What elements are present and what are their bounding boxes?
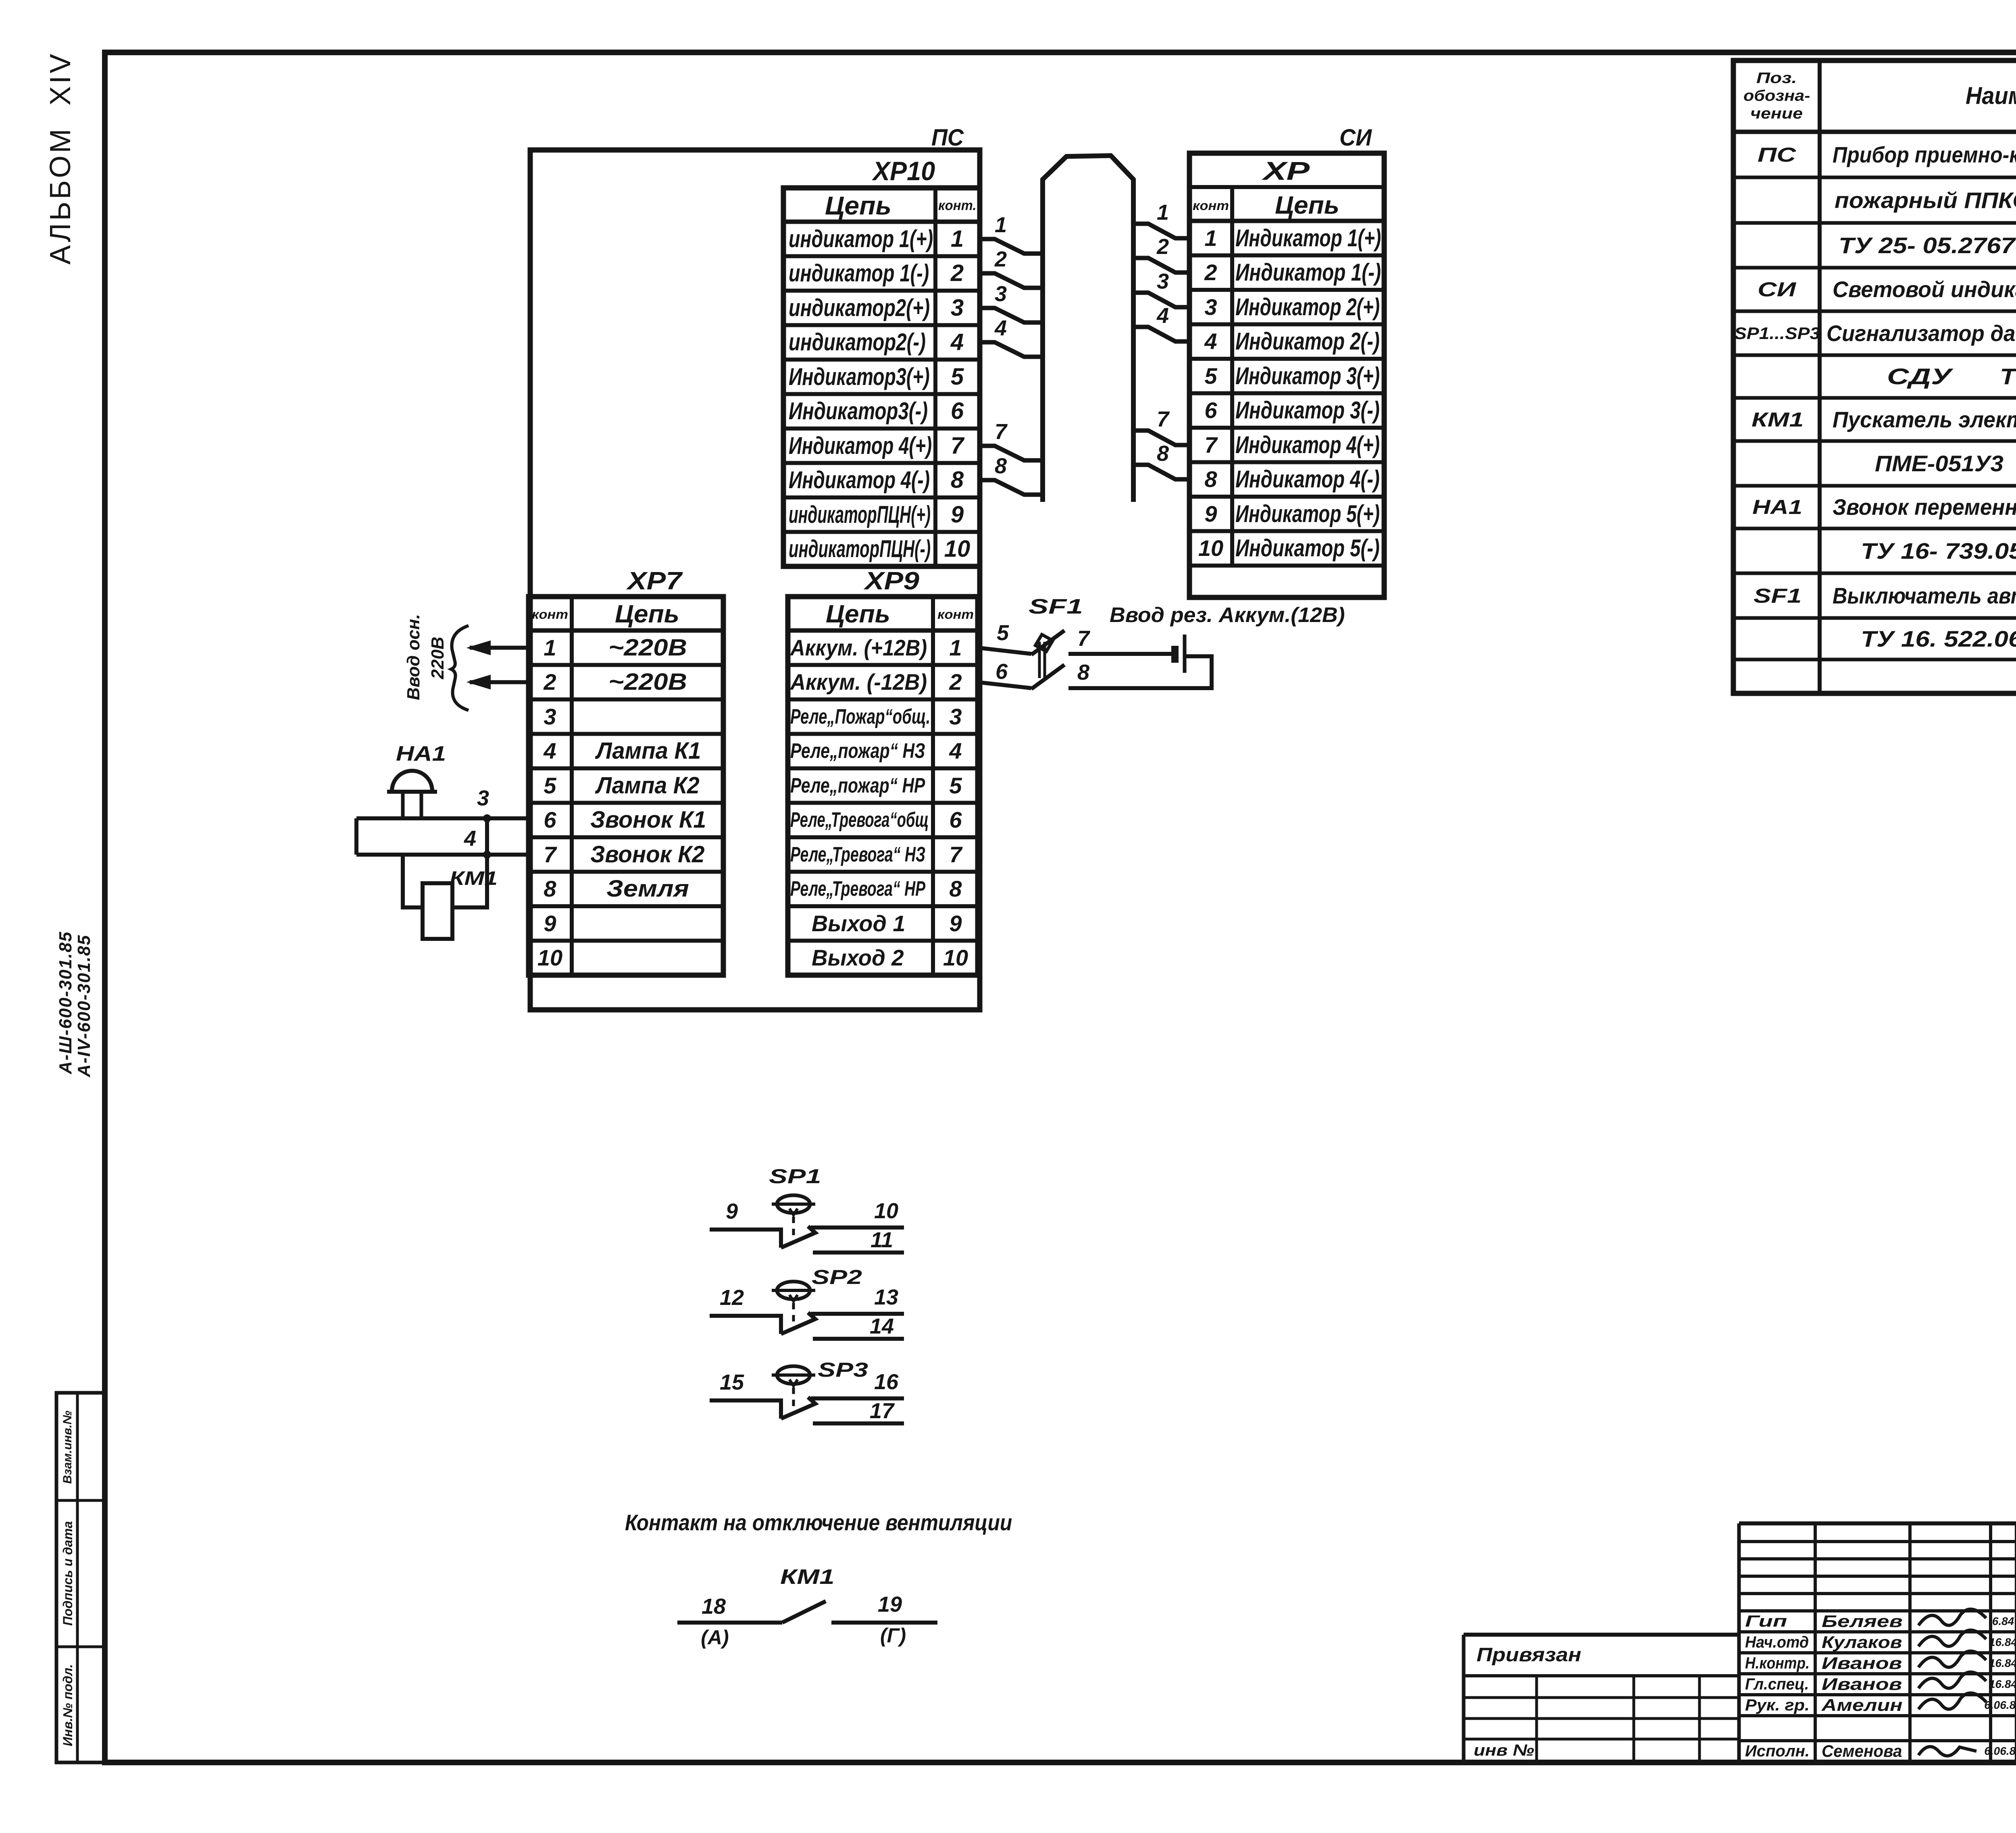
wire XP10 pin 3 to trunk	[980, 308, 1043, 322]
terminal numbers SP3	[720, 1371, 744, 1393]
parts table rows	[1758, 145, 1796, 165]
title block texts	[1477, 1646, 1581, 1665]
pressure switch SP3 actuator dashed link	[792, 1388, 795, 1413]
wire XP10 pin 1 to trunk	[980, 239, 1043, 254]
wire number 5	[997, 622, 1009, 644]
pressure switch SP2 actuator dashed link	[792, 1303, 795, 1328]
breaker SF1 pole 2 blade	[1031, 665, 1064, 689]
wire number 3 left	[995, 283, 1007, 305]
wire trunk to SI pin 3	[1133, 293, 1189, 307]
album label	[46, 52, 75, 265]
wire number 4	[464, 828, 476, 849]
brace for 220V input	[451, 626, 469, 710]
device SI box with connector XP table	[1189, 153, 1384, 597]
left margin vertical labels	[62, 1411, 74, 1483]
contact KM1 blade	[782, 1601, 826, 1623]
pressure switch SP3 NO wire	[811, 1396, 904, 1400]
wire 4 bell to XP7 pin 7	[356, 853, 529, 857]
mains input arrow pin 1	[468, 641, 529, 655]
pressure switch SP1 blade	[781, 1226, 815, 1248]
pressure switch SP2 diaphragm	[772, 1282, 815, 1301]
wire number 1 left	[995, 214, 1007, 236]
label SI	[1339, 126, 1372, 150]
label XP7	[627, 569, 682, 594]
battery GB short plate	[1171, 646, 1179, 663]
wire left side down	[354, 818, 358, 855]
battery GB long plate	[1183, 635, 1187, 673]
terminal numbers SP2	[720, 1287, 744, 1309]
label Vvod osn 220V	[405, 614, 423, 700]
contact KM1 left wire	[677, 1621, 782, 1625]
wire XP10 pin 7 to trunk	[980, 446, 1043, 460]
wire number 8 left	[995, 455, 1007, 477]
wire number 7 right	[1157, 408, 1169, 430]
wire trunk to SI pin 1	[1133, 224, 1189, 238]
XP10 circuit names and pin numbers	[789, 227, 933, 251]
XP10 header	[825, 193, 891, 218]
wire number 8	[1077, 662, 1089, 683]
pressure switch SP3 left wire	[710, 1400, 781, 1419]
wire number 4 right	[1157, 305, 1169, 327]
label XP of SI	[1263, 158, 1310, 184]
wire 6 XP9 pin2 to SF1	[978, 682, 1031, 688]
wire XP10 pin 2 to trunk	[980, 273, 1043, 288]
wire number 8 right	[1157, 443, 1169, 464]
contactor coil KM1	[423, 883, 452, 939]
pressure switch SP2 left wire	[710, 1316, 781, 1334]
label KM1 contact	[780, 1567, 835, 1587]
label XP10	[873, 158, 935, 184]
wire XP10 pin 8 to trunk	[980, 480, 1043, 495]
left attachment box grid	[1464, 1635, 1739, 1762]
wire number 7 left	[995, 421, 1007, 443]
note contact for ventilation shutoff	[625, 1511, 1012, 1534]
wire trunk to SI pin 4	[1133, 327, 1189, 341]
wire number 1 right	[1157, 202, 1169, 223]
signature table texts	[1745, 1613, 1787, 1629]
wire 8 to battery	[1068, 656, 1212, 688]
left margin stamp boxes	[56, 1393, 105, 1762]
wire number 2 right	[1157, 236, 1169, 258]
wire number 2 left	[995, 248, 1007, 270]
pressure switch SP1 NO wire	[811, 1225, 904, 1230]
breaker SF1 mechanical link	[1039, 642, 1045, 678]
bell HA1 dome	[387, 771, 437, 792]
wire XP10 pin 4 to trunk	[980, 342, 1043, 357]
wire number 7	[1077, 628, 1089, 649]
label Vvod rez Akkum	[1110, 605, 1345, 626]
left document codes	[57, 931, 75, 1074]
label KM1 coil	[450, 869, 498, 888]
XP9 circuit names and pin numbers	[790, 637, 927, 659]
pressure switch SP1 left wire	[710, 1230, 781, 1248]
XP9 header	[826, 602, 890, 627]
wire 5 XP9 pin1 to SF1	[978, 648, 1031, 654]
SI circuit names and pin numbers	[1235, 226, 1381, 250]
SI header	[1193, 199, 1229, 212]
signature table grid	[1739, 1523, 2016, 1762]
pressure switch SP3 diaphragm	[772, 1366, 815, 1386]
label XP9	[865, 569, 919, 594]
connector XP7 table	[529, 597, 723, 975]
mains input arrow pin 2	[468, 675, 529, 689]
terminal 18 and node A	[702, 1596, 726, 1617]
wire coil to node	[452, 818, 491, 907]
label SP1	[769, 1166, 821, 1186]
connector XP10 table	[783, 188, 980, 566]
terminal numbers SP1	[726, 1201, 738, 1222]
title block grid	[1739, 1523, 2016, 1762]
XP7 circuit names and pin numbers	[608, 636, 687, 660]
pressure switch SP2 blade	[781, 1313, 815, 1334]
pressure switch SP1 NC wire	[813, 1250, 904, 1255]
label PS	[931, 126, 964, 150]
parts table headers	[1756, 71, 1797, 86]
pressure switch SP2 NC wire	[813, 1337, 904, 1341]
wire to contactor coil	[403, 855, 423, 907]
pressure switch SP1 diaphragm	[772, 1195, 815, 1215]
label HA1	[396, 743, 446, 764]
wire number 3	[477, 787, 489, 809]
label SP3	[818, 1360, 868, 1380]
parts list table grid	[1733, 60, 2016, 693]
wire number 3 right	[1157, 270, 1169, 292]
wire number 6	[996, 661, 1008, 682]
wire trunk to SI pin 2	[1133, 258, 1189, 273]
signature squiggles	[1918, 1609, 1986, 1756]
label SP2	[812, 1267, 862, 1287]
breaker SF1 pole 1 blade	[1031, 630, 1064, 655]
wire 3 bell to XP7 pin 6	[356, 814, 529, 822]
wire trunk to SI pin 8	[1133, 465, 1189, 479]
connector XP9 table	[788, 597, 978, 975]
wire 7 to battery	[1068, 652, 1172, 656]
breaker SF1 latch square	[1035, 635, 1053, 651]
cable trunk between PS and SI	[1043, 156, 1133, 502]
device PS outline box	[530, 150, 980, 1010]
pressure switch SP2 NO wire	[811, 1312, 904, 1316]
wire trunk to SI pin 7	[1133, 431, 1189, 445]
contact KM1 right wire	[831, 1621, 937, 1625]
wire number 4 left	[995, 317, 1007, 339]
label SF1	[1029, 596, 1083, 617]
pressure switch SP3 NC wire	[813, 1421, 904, 1425]
pressure switch SP1 actuator dashed link	[792, 1217, 795, 1242]
pressure switch SP3 blade	[781, 1397, 815, 1419]
bell HA1 stem	[403, 792, 421, 818]
terminal 19 and node G	[878, 1594, 902, 1615]
XP7 header	[532, 608, 568, 621]
